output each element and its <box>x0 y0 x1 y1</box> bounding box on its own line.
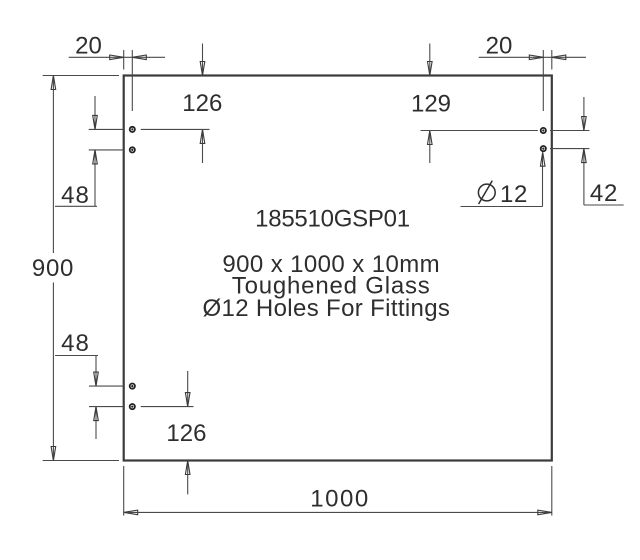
svg-text:20: 20 <box>75 32 102 59</box>
svg-text:126: 126 <box>166 420 206 447</box>
hole bottom-left lower <box>130 404 135 409</box>
diameter callout leader <box>461 155 543 207</box>
svg-text:1000: 1000 <box>310 486 369 513</box>
svg-text:42: 42 <box>590 180 618 207</box>
arrow 129 down-pointing <box>428 62 433 76</box>
svg-text:48: 48 <box>61 182 90 209</box>
glass panel outline <box>124 76 552 461</box>
extension line right of top-right lower hole <box>550 148 589 150</box>
dimension 1000 <box>124 466 552 516</box>
arrow 1000 left-pointing <box>124 510 138 515</box>
arrow 48BL down-pointing <box>94 372 99 386</box>
arrow 129 up-pointing <box>428 131 433 145</box>
arrow 20R right-pointing <box>529 55 543 60</box>
svg-text:129: 129 <box>411 90 451 117</box>
svg-text:Ø12 Holes For Fittings: Ø12 Holes For Fittings <box>203 295 451 322</box>
svg-text:126: 126 <box>182 90 222 117</box>
extension line through top-left upper hole <box>89 128 210 130</box>
arrow diameter callout up-pointing <box>540 152 545 166</box>
dimension 129 top <box>429 44 431 164</box>
dimension 900 <box>43 76 119 461</box>
arrow 1000 right-pointing <box>538 510 552 515</box>
extension line through bottom-left upper hole <box>89 385 125 387</box>
diameter symbol <box>478 181 495 204</box>
extension line through top-left lower hole <box>89 149 125 151</box>
arrow 126T down-pointing <box>200 62 205 76</box>
extension line right of top-right upper hole <box>550 130 589 132</box>
arrow 48TL down-pointing <box>93 115 98 129</box>
dimension 20 top-right <box>479 50 586 111</box>
hole top-left lower <box>130 147 135 152</box>
arrow 126B down-pointing <box>185 393 190 407</box>
extension line through bottom-left lower hole <box>89 406 194 408</box>
svg-text:48: 48 <box>61 330 90 357</box>
svg-text:185510GSP01: 185510GSP01 <box>255 205 410 232</box>
arrow 900 down-pointing <box>51 447 56 461</box>
arrow 20R left-pointing <box>552 55 566 60</box>
hole bottom-left upper <box>130 384 135 389</box>
dimension 20 top-left <box>69 50 165 111</box>
arrow 900 up-pointing <box>51 76 56 90</box>
dimension 126 bottom <box>187 371 189 494</box>
dimension 42 <box>584 97 624 205</box>
arrow 126T up-pointing <box>200 129 205 143</box>
arrow 42 up-pointing <box>582 149 587 163</box>
arrow 126B up-pointing <box>185 461 190 475</box>
extension line through top-right upper hole <box>421 130 538 132</box>
arrow 42 down-pointing <box>582 117 587 131</box>
hole top-right lower <box>541 146 546 151</box>
arrow 20L left-pointing <box>132 55 146 60</box>
arrow 48TL up-pointing <box>93 150 98 164</box>
dimension 48 bottom-left <box>55 356 98 440</box>
dimension 48 top-left <box>55 96 97 206</box>
arrow 20L right-pointing <box>110 55 124 60</box>
hole top-right upper <box>541 128 546 133</box>
svg-text:12: 12 <box>500 181 528 208</box>
hole top-left upper <box>130 127 135 132</box>
svg-text:20: 20 <box>486 32 513 59</box>
dimension 126 top <box>202 44 204 164</box>
arrow 48BL up-pointing <box>94 407 99 421</box>
svg-text:900: 900 <box>32 255 74 282</box>
